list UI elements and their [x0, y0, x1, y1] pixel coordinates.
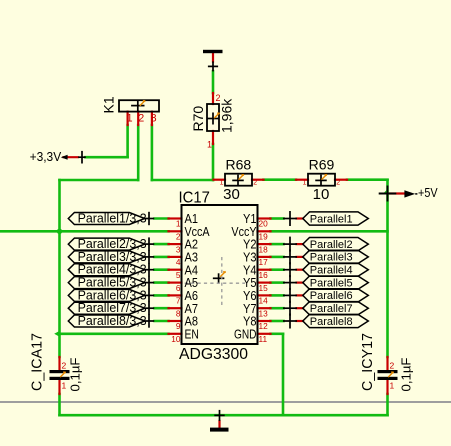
svg-text:1: 1 [303, 179, 307, 186]
svg-text:20: 20 [259, 219, 269, 229]
svg-text:7: 7 [176, 296, 181, 306]
svg-text:Parallel5: Parallel5 [310, 277, 353, 289]
svg-text:12: 12 [259, 321, 269, 331]
svg-text:Parallel6: Parallel6 [310, 290, 353, 302]
svg-text:8: 8 [176, 308, 181, 318]
svg-text:3: 3 [176, 244, 181, 254]
svg-text:2: 2 [138, 113, 144, 125]
svg-text:K1: K1 [101, 96, 117, 113]
svg-text:Parallel8/3,3: Parallel8/3,3 [78, 313, 147, 328]
svg-text:R68: R68 [225, 156, 251, 172]
svg-text:30: 30 [223, 186, 240, 203]
svg-text:EN: EN [185, 326, 199, 341]
svg-text:R69: R69 [309, 156, 335, 172]
svg-text:2: 2 [216, 93, 221, 103]
svg-text:ADG3300: ADG3300 [179, 346, 248, 363]
svg-text:14: 14 [259, 296, 269, 306]
svg-text:18: 18 [259, 244, 269, 254]
svg-text:9: 9 [176, 321, 181, 331]
svg-text:+3,3V: +3,3V [30, 150, 62, 164]
svg-text:1: 1 [127, 113, 133, 125]
svg-text:C_ICA17: C_ICA17 [30, 333, 46, 391]
svg-text:IC17: IC17 [179, 190, 210, 207]
svg-text:C_ICY17: C_ICY17 [360, 333, 376, 391]
svg-text:Parallel3: Parallel3 [310, 252, 353, 264]
svg-text:16: 16 [259, 270, 269, 280]
svg-text:Parallel1/3,3: Parallel1/3,3 [78, 211, 147, 226]
svg-text:1: 1 [176, 219, 181, 229]
svg-text:+5V: +5V [418, 186, 438, 200]
svg-text:1: 1 [390, 381, 395, 391]
svg-text:0,1µF: 0,1µF [68, 358, 83, 392]
svg-text:4: 4 [176, 257, 181, 267]
svg-text:10: 10 [171, 334, 181, 344]
svg-text:Parallel2: Parallel2 [310, 239, 353, 251]
svg-text:Parallel7: Parallel7 [310, 303, 353, 315]
svg-text:1: 1 [207, 140, 212, 150]
svg-text:1: 1 [62, 381, 67, 391]
svg-text:Parallel8: Parallel8 [310, 316, 353, 328]
svg-text:13: 13 [259, 308, 269, 318]
svg-text:1,96k: 1,96k [219, 98, 235, 133]
svg-text:11: 11 [259, 334, 268, 344]
svg-text:2: 2 [390, 361, 395, 371]
svg-text:19: 19 [259, 232, 269, 242]
svg-text:3: 3 [151, 113, 157, 125]
svg-text:1: 1 [220, 179, 224, 186]
svg-text:GND: GND [234, 326, 257, 341]
svg-text:6: 6 [176, 283, 181, 293]
svg-text:Parallel1: Parallel1 [310, 213, 353, 225]
svg-text:15: 15 [259, 283, 269, 293]
svg-text:2: 2 [253, 179, 257, 186]
svg-text:10: 10 [313, 186, 330, 203]
svg-text:17: 17 [259, 257, 269, 267]
svg-text:2: 2 [336, 179, 340, 186]
svg-text:2: 2 [176, 232, 181, 242]
svg-text:R70: R70 [190, 106, 206, 132]
svg-text:2: 2 [62, 361, 67, 371]
svg-text:0,1µF: 0,1µF [399, 358, 414, 392]
svg-text:5: 5 [176, 270, 181, 280]
svg-text:Parallel4: Parallel4 [310, 265, 353, 277]
